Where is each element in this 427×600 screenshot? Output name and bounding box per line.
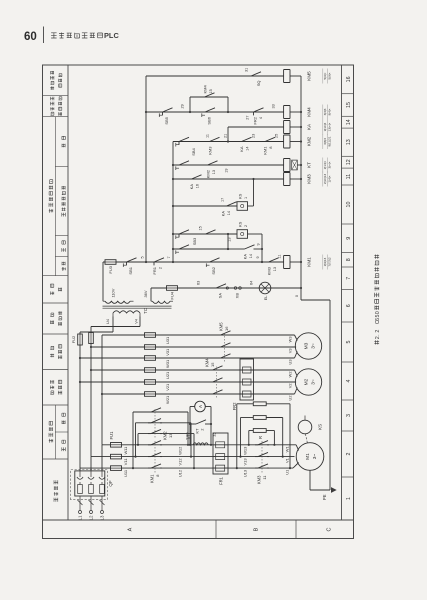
speed relay contact KS-2	[237, 230, 248, 239]
svg-text:U13: U13	[243, 469, 248, 477]
TC secondary 110V	[105, 301, 130, 303]
svg-text:U21: U21	[165, 372, 170, 379]
relay contact KA-16	[189, 175, 203, 179]
wire QF to V bus	[90, 457, 92, 471]
svg-text:13: 13	[212, 170, 216, 174]
header cell divider	[43, 95, 69, 97]
header band line	[67, 65, 69, 520]
branch fuse FU	[145, 392, 156, 397]
svg-text:KA: KA	[239, 146, 244, 152]
header 主电动机控制	[49, 209, 53, 213]
svg-text:KM2: KM2	[163, 431, 168, 440]
contactor coil KM3	[284, 173, 290, 186]
header subrow divider	[55, 166, 68, 168]
svg-text:V12: V12	[178, 458, 183, 466]
svg-text:1: 1	[346, 497, 352, 500]
number band divider	[342, 127, 354, 129]
svg-text:60: 60	[24, 31, 37, 43]
svg-text:KS: KS	[238, 193, 243, 199]
ammeter A	[195, 401, 206, 412]
svg-text:R: R	[258, 436, 263, 439]
interlock contact KM1-8b	[203, 230, 217, 234]
svg-text:2: 2	[244, 225, 248, 227]
svg-text:KM5: KM5	[219, 322, 224, 331]
svg-text:11: 11	[206, 134, 210, 138]
ammeter loop	[189, 407, 191, 445]
number band divider	[342, 223, 354, 225]
svg-text:KA: KA	[221, 211, 226, 217]
svg-text:16: 16	[196, 184, 200, 188]
wire QF to U bus	[79, 468, 81, 471]
PE earth wire	[309, 470, 311, 490]
FR1 heater element	[213, 442, 228, 448]
W bus lower	[249, 444, 296, 446]
PE ground symbol	[331, 487, 337, 493]
brake rung 2	[173, 233, 237, 235]
svg-text:27: 27	[246, 116, 250, 120]
header 正转	[62, 248, 66, 252]
svg-text:U12: U12	[178, 469, 183, 477]
svg-text:KT: KT	[306, 162, 311, 168]
svg-text:3: 3	[346, 414, 352, 417]
start button SB6	[202, 108, 216, 112]
svg-text:8: 8	[269, 147, 273, 149]
svg-text:W12: W12	[178, 446, 183, 455]
svg-text:2: 2	[375, 330, 381, 333]
contactor coil KM2	[284, 135, 290, 148]
self-hold contact KM4-15	[202, 93, 216, 97]
contactor KM5 main contacts	[218, 331, 232, 335]
circuit breaker QF dashed enclosure	[71, 470, 108, 500]
thermal relay FR2 box	[240, 359, 254, 400]
svg-text:.: .	[375, 334, 381, 336]
svg-text:V13: V13	[243, 458, 248, 466]
svg-text:M1: M1	[305, 453, 311, 460]
svg-text:110V: 110V	[111, 288, 116, 297]
resistor R element	[253, 429, 266, 433]
svg-text:FU2: FU2	[71, 335, 76, 343]
svg-text:8|11|21: 8|11|21	[328, 136, 332, 146]
svg-text:11: 11	[346, 174, 352, 180]
svg-text:FR1: FR1	[152, 266, 157, 274]
svg-text:M3: M3	[304, 342, 310, 349]
KM4 self-hold branch	[189, 111, 191, 113]
interlock contact KM3-11	[207, 137, 221, 141]
header subrow divider	[55, 256, 68, 258]
header cell divider	[43, 302, 69, 304]
svg-text:U2: U2	[288, 396, 293, 401]
V bus extension	[90, 327, 92, 457]
svg-text:SB2: SB2	[211, 266, 216, 274]
fuse FU3	[105, 260, 116, 265]
W phase bus (W11)	[102, 444, 249, 446]
svg-text:11: 11	[278, 255, 282, 259]
svg-text:KM3: KM3	[306, 174, 311, 184]
svg-text:33: 33	[272, 104, 276, 108]
contactor KM1 main contacts	[148, 464, 162, 468]
TC feed elbow V	[91, 326, 140, 328]
current transformer TA winding	[189, 444, 191, 446]
limit switch SQ	[248, 72, 262, 76]
header rule	[43, 27, 45, 44]
header cell divider	[43, 404, 69, 406]
svg-text:15: 15	[199, 226, 203, 230]
TC feed elbow U	[80, 331, 113, 333]
svg-text:6: 6	[346, 304, 352, 307]
V phase bus (V11)	[91, 456, 241, 458]
svg-text:SB6: SB6	[207, 116, 212, 124]
svg-text:13: 13	[346, 139, 352, 145]
svg-text:4: 4	[259, 117, 263, 119]
branch fuse FU	[145, 380, 156, 385]
header 快速电动机控制	[50, 86, 54, 89]
svg-text:L1: L1	[78, 515, 83, 520]
svg-text:KA: KA	[189, 184, 194, 190]
header 快速电动机	[50, 354, 54, 358]
svg-text:L3: L3	[100, 515, 105, 520]
earth return wire	[301, 299, 330, 301]
svg-text:V4: V4	[134, 318, 139, 324]
svg-text:W11: W11	[123, 446, 128, 455]
svg-text:14: 14	[249, 254, 253, 258]
svg-text:19: 19	[225, 169, 229, 173]
svg-text:FR1: FR1	[219, 476, 224, 485]
svg-text:36V: 36V	[143, 290, 148, 297]
svg-text:PE: PE	[322, 494, 327, 500]
header subrow divider	[55, 431, 68, 433]
svg-text:SA: SA	[218, 293, 223, 299]
svg-text:2: 2	[346, 452, 352, 455]
FR2 heater element	[240, 391, 254, 397]
svg-text:4: 4	[346, 379, 352, 382]
M3 branch line 1	[102, 334, 295, 336]
svg-text:SQ: SQ	[256, 81, 261, 87]
svg-text:13: 13	[228, 238, 232, 242]
number band divider	[342, 289, 354, 291]
svg-text:V1: V1	[285, 457, 290, 463]
svg-text:V2: V2	[288, 384, 293, 389]
resistor loop W	[248, 444, 250, 446]
svg-text:14: 14	[227, 211, 231, 215]
KA rung	[228, 126, 284, 128]
svg-text:SB5: SB5	[164, 116, 169, 124]
brake rung 3	[173, 248, 228, 250]
lamp rung rail junction	[300, 287, 302, 289]
svg-text:16: 16	[224, 326, 229, 331]
fuse FU2 on V ext	[89, 333, 94, 344]
svg-text:W21: W21	[165, 396, 170, 404]
svg-text:V31: V31	[165, 349, 170, 356]
FR2 heater element	[240, 367, 254, 373]
svg-text:2|10|13: 2|10|13	[323, 174, 327, 184]
svg-text:EL: EL	[263, 295, 268, 301]
header cell divider	[43, 333, 69, 335]
header 照明灯	[50, 291, 54, 295]
svg-text:L2: L2	[89, 515, 94, 520]
svg-text:KM4: KM4	[306, 107, 311, 117]
feed rung continues	[146, 261, 284, 263]
header 冷却泵电动机控制	[51, 112, 54, 115]
svg-text:2|9|13: 2|9|13	[323, 257, 327, 266]
svg-text:25: 25	[275, 134, 279, 138]
svg-text:FU1: FU1	[109, 431, 114, 440]
brake rung 1	[173, 205, 237, 207]
svg-text:1: 1	[244, 197, 248, 199]
svg-text:U4: U4	[105, 318, 110, 324]
KM2 rung	[173, 141, 284, 143]
time relay coil KT	[284, 159, 290, 172]
fuse FU1 (W)	[111, 443, 122, 448]
TC core	[103, 307, 172, 309]
number band divider	[342, 184, 354, 186]
number band divider	[342, 321, 354, 323]
svg-text:TC: TC	[143, 308, 148, 314]
circuit breaker QF box	[75, 471, 105, 496]
svg-text:FR2: FR2	[253, 116, 258, 124]
svg-text:13|×|×: 13|×|×	[328, 122, 332, 131]
M1 feed converge	[293, 463, 299, 469]
svg-text:29: 29	[181, 104, 185, 108]
relay contact KA-14c	[228, 248, 242, 250]
svg-text:W2: W2	[288, 372, 293, 378]
contactor coil KM1	[284, 256, 290, 269]
svg-text:2: 2	[159, 267, 163, 269]
number band divider	[342, 93, 354, 95]
interlock contact KM1-8	[262, 137, 276, 141]
svg-text:63: 63	[197, 281, 201, 285]
book title 电气控制技术与PLC	[51, 31, 119, 40]
svg-text:KM1: KM1	[150, 474, 155, 483]
svg-text:U3: U3	[288, 360, 293, 365]
QF pole 1	[78, 485, 83, 494]
motor M1	[296, 443, 324, 471]
reverse button SB4 NO half	[176, 161, 190, 165]
svg-text:9: 9	[257, 243, 261, 245]
KT shorting contact branch	[190, 423, 194, 425]
relay contact KA-14a	[239, 137, 253, 141]
svg-text:FR2: FR2	[232, 402, 237, 411]
control rail wire 7	[172, 142, 174, 263]
header 正、反向制动	[62, 213, 66, 217]
svg-text:9: 9	[346, 237, 352, 240]
svg-text:KM4: KM4	[205, 358, 210, 367]
svg-text:9|4|×: 9|4|×	[328, 108, 332, 115]
svg-text:21: 21	[224, 134, 228, 138]
QF pole 2	[89, 485, 94, 494]
svg-text:W3: W3	[288, 337, 293, 343]
zone letters band line	[43, 519, 354, 521]
number band divider	[342, 361, 354, 363]
M2 branch line 1	[91, 369, 295, 371]
svg-text:U11: U11	[123, 469, 128, 477]
header 电源开关	[54, 498, 58, 502]
U bus extension	[79, 332, 81, 468]
svg-text:2: 2	[201, 429, 205, 431]
interlock contact KM3-13	[266, 258, 280, 262]
zone divider A/B	[215, 520, 217, 539]
fuse FU4	[167, 286, 178, 291]
svg-text:V21: V21	[165, 384, 170, 391]
motor M2	[295, 369, 321, 395]
M3 branch line 2	[91, 346, 296, 348]
svg-text:13: 13	[273, 267, 277, 271]
KT delay element	[292, 160, 298, 170]
svg-text:31: 31	[245, 68, 249, 72]
svg-text:9: 9	[256, 256, 260, 258]
stop button SB5	[160, 108, 174, 116]
fuse FU1 (U)	[111, 466, 122, 471]
number band divider	[342, 155, 354, 157]
svg-text:7: 7	[167, 256, 171, 258]
contactor KM4 main contacts	[210, 366, 224, 370]
svg-text:W1: W1	[285, 446, 290, 453]
transformer TC primary	[112, 313, 114, 317]
svg-text:SB4: SB4	[191, 147, 196, 155]
number band divider	[342, 115, 354, 117]
svg-text:9|10|4: 9|10|4	[323, 122, 327, 131]
svg-text:KA: KA	[306, 123, 311, 130]
svg-text:SB3: SB3	[192, 237, 197, 245]
branch fuse FU	[145, 368, 156, 373]
svg-text:64: 64	[250, 281, 254, 285]
header 冷却泵电动机	[50, 391, 54, 394]
figure caption	[374, 340, 379, 344]
resistor R element	[253, 416, 266, 420]
svg-text:QF: QF	[108, 480, 113, 487]
fuse FU2 on U ext	[78, 334, 83, 345]
contactor KM2 main contacts	[148, 429, 162, 433]
svg-text:KM3: KM3	[267, 266, 272, 275]
header 反转	[62, 144, 65, 148]
svg-text:8: 8	[346, 258, 352, 261]
number band divider	[342, 266, 354, 268]
schematic outer frame	[43, 65, 354, 539]
svg-text:14: 14	[246, 147, 250, 151]
stop button SB1	[124, 258, 138, 266]
svg-text:V3: V3	[288, 349, 293, 354]
FR1 heater element	[213, 465, 228, 471]
svg-text:5: 5	[141, 256, 145, 258]
control rail wire 5	[145, 76, 147, 262]
svg-text:16: 16	[346, 76, 352, 82]
svg-text:5|9|×: 5|9|×	[323, 72, 327, 79]
svg-text:KM1: KM1	[306, 257, 311, 267]
reverse button SB4 NC half	[176, 137, 190, 145]
svg-text:36: 36	[185, 432, 189, 436]
thermal contact FR2-4	[251, 108, 265, 116]
book title	[51, 33, 57, 38]
KM3 rung	[173, 178, 284, 180]
svg-text:13: 13	[168, 433, 173, 438]
U bus lower	[237, 467, 293, 469]
branch fuse FU	[145, 345, 156, 350]
numbers band line	[341, 65, 343, 520]
number band divider	[342, 430, 354, 432]
svg-text:U31: U31	[165, 337, 170, 344]
control return rail 0	[300, 76, 302, 300]
svg-text:A: A	[198, 405, 203, 408]
number band divider	[342, 167, 354, 169]
svg-text:5|9|×: 5|9|×	[328, 72, 332, 79]
header 反转	[62, 421, 65, 425]
svg-text:A: A	[128, 527, 134, 531]
header 正转	[62, 447, 66, 451]
header 点动	[62, 267, 66, 271]
header cell divider	[43, 369, 69, 371]
svg-text:3~: 3~	[312, 454, 318, 460]
M2 branch line 2	[80, 381, 296, 383]
svg-text:W13: W13	[243, 446, 248, 455]
svg-text:SB1: SB1	[128, 266, 133, 274]
wire QF to W bus	[101, 445, 103, 471]
QF pole 3	[100, 485, 105, 494]
svg-text:2|14|×: 2|14|×	[323, 161, 327, 170]
KT rung	[173, 164, 284, 166]
branch fuse FU	[145, 356, 156, 361]
speed relay contact KS-1	[237, 202, 248, 211]
header cell divider	[43, 116, 69, 118]
control feed rung	[103, 261, 146, 263]
KM4 rung	[146, 111, 284, 113]
forward button SB3 NC half	[176, 230, 190, 238]
jog button SB2	[207, 258, 221, 262]
resistor loop U	[236, 467, 238, 469]
M3 branch line 3	[80, 357, 295, 359]
KS2 link down	[248, 233, 263, 235]
svg-text:KS: KS	[318, 424, 323, 430]
lighting rung	[151, 287, 301, 289]
speed relay KS	[298, 420, 312, 434]
contactor KM3 main contacts	[255, 464, 269, 468]
svg-text:KT: KT	[195, 428, 200, 434]
svg-text:V11: V11	[123, 458, 128, 466]
resistor loop V	[239, 456, 241, 458]
interlock contact KM2-13	[205, 161, 219, 165]
svg-text:KM2: KM2	[206, 169, 211, 178]
svg-text:15: 15	[210, 362, 215, 367]
KS1 to KM3 link	[248, 205, 254, 207]
header 主电动机	[49, 439, 53, 443]
KM5 rung	[146, 75, 284, 77]
header cell divider	[43, 275, 69, 277]
svg-text:3~: 3~	[311, 379, 317, 385]
lamp switch SA	[213, 284, 227, 288]
M2 branch line 3	[102, 393, 295, 395]
svg-text:15: 15	[209, 89, 213, 93]
svg-text:23: 23	[252, 134, 256, 138]
motor M3	[295, 333, 321, 359]
V bus lower	[241, 456, 295, 458]
contactor coil KM4	[284, 106, 290, 119]
header subrow line	[54, 117, 56, 276]
header subrow line	[54, 405, 56, 459]
svg-text:C: C	[327, 527, 333, 531]
resistor R element	[253, 402, 266, 406]
svg-text:XB: XB	[235, 293, 240, 299]
svg-text:3~: 3~	[311, 343, 317, 349]
svg-text:KM3: KM3	[257, 475, 262, 484]
KS shaft link	[305, 434, 307, 443]
svg-text:3|3|3: 3|3|3	[323, 108, 327, 115]
svg-text:M2: M2	[304, 378, 310, 385]
svg-text:7|7|7|2: 7|7|7|2	[328, 257, 332, 267]
FR2 heater element	[240, 379, 254, 385]
W bus extension	[101, 335, 103, 445]
svg-text:0: 0	[375, 311, 381, 314]
svg-text:3|×|×: 3|×|×	[328, 161, 332, 168]
svg-text:W31: W31	[165, 360, 170, 368]
svg-text:B: B	[254, 527, 260, 531]
